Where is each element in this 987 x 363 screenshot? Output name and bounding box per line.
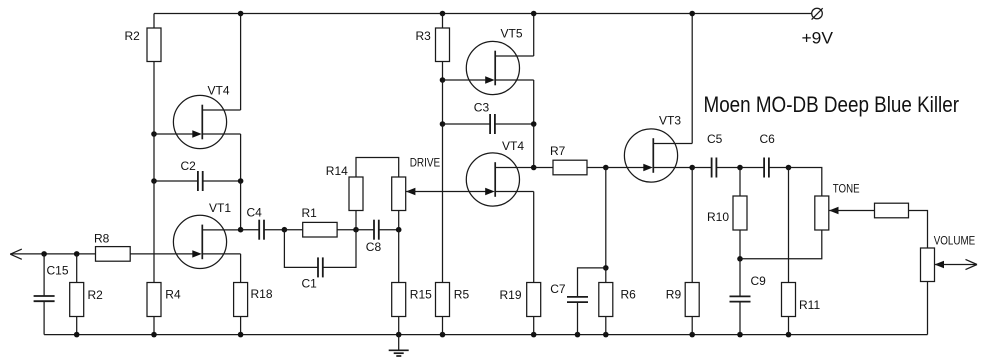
potentiometer VOLUME <box>921 248 935 282</box>
svg-text:R19: R19 <box>500 288 522 302</box>
wire C7 tap leg <box>578 268 606 297</box>
capacitor C6 <box>764 158 769 178</box>
svg-text:+9V: +9V <box>802 30 834 48</box>
svg-text:VT4: VT4 <box>502 139 524 153</box>
wire C2-left down across input to R4 <box>153 181 155 283</box>
label R8 <box>94 232 110 246</box>
wire TONE wiper to resistor <box>829 210 875 212</box>
wire R14 bottom <box>355 211 357 230</box>
node rail/VT5 drain <box>531 11 537 17</box>
node C3 right <box>531 121 537 127</box>
wire C2-right down to VT1 drain <box>240 181 242 230</box>
wire R6 column upper <box>605 168 607 268</box>
svg-text:R14: R14 <box>326 164 348 178</box>
wiper arrow TONE <box>829 207 839 214</box>
capacitor C3 <box>490 114 495 134</box>
wire C4 left lead <box>241 229 260 231</box>
svg-text:C8: C8 <box>366 240 382 254</box>
wire R2-bottom top lead <box>76 254 78 283</box>
node R1/R14/C8 <box>353 227 359 233</box>
wire C9 top lead <box>739 259 741 297</box>
wire to VT3 gate <box>606 167 644 169</box>
resistor R6 <box>599 283 613 317</box>
resistor R2 (bottom) <box>70 283 84 317</box>
node R3/VT5 gate <box>440 77 446 83</box>
junction ground rail x=577.5 <box>575 332 581 338</box>
wire gate node to C2 left <box>153 134 155 181</box>
wire R5 to rail <box>442 317 444 335</box>
wire VT5 gate <box>443 79 486 81</box>
node C2 left <box>151 178 157 184</box>
wire to R1 <box>284 229 302 231</box>
svg-text:R3: R3 <box>416 29 432 43</box>
label VT3 <box>659 114 681 128</box>
resistor R18 <box>234 283 248 317</box>
transistor VT4 (input stage top) <box>173 95 240 148</box>
node R7/R6/VT3 gate <box>603 165 609 171</box>
title Moen MO-DB Deep Blue Killer <box>704 92 960 117</box>
resistor R14 <box>349 177 363 211</box>
wire to TONE top <box>789 168 822 197</box>
svg-text:R9: R9 <box>666 288 682 302</box>
svg-text:C1: C1 <box>302 277 318 291</box>
label VT4 mid <box>502 139 524 153</box>
wire input line <box>10 253 95 255</box>
wire C15 top lead <box>43 254 45 296</box>
capacitor C9 <box>730 296 751 301</box>
input arrow <box>10 249 21 259</box>
transistor VT1 <box>173 215 240 268</box>
wire R8 to VT1 gate <box>130 253 192 255</box>
capacitor C1 <box>318 257 323 277</box>
wire C4 right lead <box>264 229 284 231</box>
label C8 <box>366 240 382 254</box>
svg-text:C5: C5 <box>707 132 723 146</box>
svg-text:R7: R7 <box>550 144 566 158</box>
wire C8 right lead <box>379 229 399 231</box>
gate arrow VT3 <box>643 164 653 171</box>
node C8/DRIVE/R15 <box>396 227 402 233</box>
wire VOLUME bottom to rail <box>927 282 929 335</box>
svg-text:C3: C3 <box>474 101 490 115</box>
wire R6 to rail <box>605 317 607 335</box>
junction ground rail x=740 <box>737 332 743 338</box>
node rail/R3 <box>440 11 446 17</box>
wire R1 to node <box>337 229 356 231</box>
output arrow <box>966 259 978 269</box>
wire C5 left lead <box>692 167 711 169</box>
junction ground rail x=76.7 <box>74 332 80 338</box>
resistor R10 <box>733 196 747 230</box>
svg-text:VT3: VT3 <box>659 114 681 128</box>
wire C6 right lead <box>769 167 789 169</box>
resistor R8 <box>96 247 131 262</box>
svg-text:R15: R15 <box>410 288 432 302</box>
junction ground rail x=605.8 <box>603 332 609 338</box>
svg-text:C9: C9 <box>751 274 767 288</box>
wire R19 to rail <box>533 317 535 335</box>
wire C2 left lead <box>154 180 198 182</box>
node R2-bottom tap <box>74 251 80 257</box>
svg-text:VT1: VT1 <box>209 201 231 215</box>
wire R6 column lower <box>605 268 607 283</box>
wiper arrow VOLUME <box>935 261 945 268</box>
gate arrow VT4 <box>192 130 202 137</box>
wire R7 to R6 node <box>587 167 606 169</box>
wire DRIVE bottom <box>398 211 400 230</box>
junction ground rail x=240.6 <box>238 332 244 338</box>
node R6/C7 tap <box>603 265 609 271</box>
wire C3 left lead <box>443 123 491 125</box>
svg-text:C7: C7 <box>550 282 566 296</box>
node R1/C1 left <box>282 227 288 233</box>
wire node down to R15 <box>398 230 400 283</box>
svg-text:R8: R8 <box>94 232 110 246</box>
wire down to C3 left <box>442 80 444 124</box>
label R19 <box>500 288 522 302</box>
wire R10 bottom lead <box>739 230 741 259</box>
label C1 <box>302 277 318 291</box>
transistor VT4 (second stage) <box>466 153 533 206</box>
wire C2 right lead <box>203 180 241 182</box>
svg-text:TONE: TONE <box>833 182 860 196</box>
node C15 tap <box>41 251 47 257</box>
label R18 <box>251 287 273 301</box>
wire R10 top lead <box>739 168 741 197</box>
junction ground rail x=398.7 <box>396 332 402 338</box>
label C6 <box>760 132 776 146</box>
label VOLUME <box>934 234 976 248</box>
svg-text:R2: R2 <box>125 29 141 43</box>
wire C7 bottom lead <box>577 302 579 335</box>
node VT3 source / R9 / C5 <box>689 165 695 171</box>
resistor R11 <box>782 283 796 317</box>
wire R2-bottom to rail <box>76 317 78 335</box>
wire C3 right lead <box>495 123 534 125</box>
transistor VT3 <box>624 129 692 182</box>
node R10/C9/TONE bottom <box>737 256 743 262</box>
label R2 bottom <box>88 288 104 302</box>
resistor tone output <box>875 203 909 218</box>
svg-text:R6: R6 <box>621 288 637 302</box>
label C3 <box>474 101 490 115</box>
label C15 <box>47 264 69 278</box>
wire VT5 source down to C3 right <box>533 80 535 124</box>
label VT5 <box>501 27 523 41</box>
capacitor C8 <box>374 220 379 240</box>
label R7 <box>550 144 566 158</box>
wire VT5 drain up to rail <box>533 14 535 57</box>
wire DRIVE wiper to VT4 gate <box>406 191 486 193</box>
wiper arrow DRIVE <box>406 188 416 195</box>
wire R14/DRIVE top bracket <box>356 158 399 178</box>
wire VOLUME wiper output <box>935 264 978 266</box>
wire R15 to rail <box>398 317 400 335</box>
junction ground rail x=442.5 <box>440 332 446 338</box>
wire VT1 source down to R18 <box>240 254 242 283</box>
label +9V <box>802 30 834 48</box>
svg-text:C15: C15 <box>47 264 69 278</box>
label C2 <box>181 159 197 173</box>
resistor R1 <box>303 222 337 237</box>
node rail/VT3 drain <box>689 11 695 17</box>
wire R3 to VT5-gate node <box>442 62 444 81</box>
label R6 <box>621 288 637 302</box>
wire R11 to rail <box>788 317 790 335</box>
node C3 left <box>440 121 446 127</box>
svg-text:R18: R18 <box>251 287 273 301</box>
wire R2 to VT4 gate node <box>153 62 155 135</box>
svg-text:VT5: VT5 <box>501 27 523 41</box>
capacitor C7 <box>567 297 588 302</box>
resistor R9 <box>685 283 699 317</box>
node VT4 gate junction <box>151 131 157 137</box>
svg-text:VT4: VT4 <box>208 84 230 98</box>
wire C9 bottom lead <box>739 302 741 335</box>
wire VT3 drain up to rail <box>691 14 693 144</box>
node VT1 drain / C4 <box>238 227 244 233</box>
wire C8 left lead <box>356 229 374 231</box>
wire rail to R2 <box>153 14 155 29</box>
wire C15 bottom lead <box>43 301 45 334</box>
label R2 top <box>125 29 141 43</box>
capacitor C4 <box>259 220 264 240</box>
terminal +9V <box>812 8 823 19</box>
label C9 <box>751 274 767 288</box>
wire C6 left lead <box>740 167 764 169</box>
label R3 <box>416 29 432 43</box>
junction ground rail x=533.7 <box>531 332 537 338</box>
label R14 <box>326 164 348 178</box>
wire TONE bottom return <box>740 230 822 259</box>
label C5 <box>707 132 723 146</box>
wire resistor to VOLUME top <box>909 211 928 249</box>
potentiometer DRIVE <box>392 177 406 211</box>
wire C3-left down to R5 (crosses drive wiper) <box>442 124 444 283</box>
svg-text:C6: C6 <box>760 132 776 146</box>
wire C3-right down to VT4M drain <box>533 124 535 168</box>
svg-text:R10: R10 <box>707 210 729 224</box>
node C5/C6/R10 <box>737 165 743 171</box>
resistor R15 <box>392 283 406 317</box>
wire rail to R3 <box>442 14 444 29</box>
resistor R4 <box>147 283 161 317</box>
potentiometer TONE <box>815 196 829 230</box>
node C2 right <box>238 178 244 184</box>
wire VT3 source down to R9 <box>691 168 693 283</box>
gate arrow VT1 <box>192 250 202 257</box>
wire VT4 gate <box>154 133 193 135</box>
capacitor C2 <box>198 171 203 191</box>
label VT1 <box>209 201 231 215</box>
wire R4 to ground rail <box>153 317 155 335</box>
resistor R7 <box>553 160 587 175</box>
label R5 <box>454 288 470 302</box>
junction ground rail x=788.5 <box>786 332 792 338</box>
svg-text:VOLUME: VOLUME <box>934 234 976 248</box>
resistor R2 (top) <box>147 28 161 62</box>
svg-text:R11: R11 <box>799 298 820 312</box>
wire VT4 drain up to rail <box>240 14 242 111</box>
ground symbol <box>389 335 409 356</box>
resistor R5 <box>436 283 450 317</box>
gate arrow VT5 <box>485 76 495 83</box>
label C4 <box>247 206 263 220</box>
wire +9V top rail <box>154 13 812 15</box>
capacitor C15 <box>34 296 55 301</box>
node C6/TONE/R11 <box>786 165 792 171</box>
label R11 <box>799 298 820 312</box>
svg-text:R5: R5 <box>454 288 470 302</box>
svg-text:DRIVE: DRIVE <box>410 156 441 170</box>
label DRIVE <box>410 156 441 170</box>
capacitor C5 <box>712 158 717 178</box>
label R10 <box>707 210 729 224</box>
label R15 <box>410 288 432 302</box>
svg-text:R2: R2 <box>88 288 104 302</box>
wire node to R7 <box>534 167 553 169</box>
resistor R19 <box>527 283 541 317</box>
svg-text:C2: C2 <box>181 159 197 173</box>
label R9 <box>666 288 682 302</box>
wire R9 to rail <box>691 317 693 335</box>
svg-text:Moen MO-DB Deep Blue Killer: Moen MO-DB Deep Blue Killer <box>704 92 960 117</box>
label C7 <box>550 282 566 296</box>
transistor VT5 <box>466 41 533 94</box>
wire VT4M source down to R19 <box>533 192 535 283</box>
svg-text:R4: R4 <box>165 288 181 302</box>
wire R18 to ground rail <box>240 317 242 335</box>
wire C1 right leg <box>323 230 356 268</box>
junction ground rail x=692.2 <box>689 332 695 338</box>
junction ground rail x=154 <box>151 332 157 338</box>
svg-text:R1: R1 <box>302 206 318 220</box>
svg-text:C4: C4 <box>247 206 263 220</box>
wire VT4 source down to C2 right <box>240 134 242 181</box>
wire ground rail <box>44 334 927 336</box>
resistor R3 <box>436 28 450 62</box>
gate arrow VT4 mid <box>485 188 495 195</box>
label R4 <box>165 288 181 302</box>
label TONE <box>833 182 860 196</box>
wire C5 right lead <box>716 167 740 169</box>
wire C6-right down to R11 (crosses tone return) <box>788 168 790 283</box>
label R1 <box>302 206 318 220</box>
node rail/VT4 drain <box>238 11 244 17</box>
label VT4 <box>208 84 230 98</box>
wire C1 left leg <box>284 230 318 268</box>
node VT4M drain / R7 <box>531 165 537 171</box>
